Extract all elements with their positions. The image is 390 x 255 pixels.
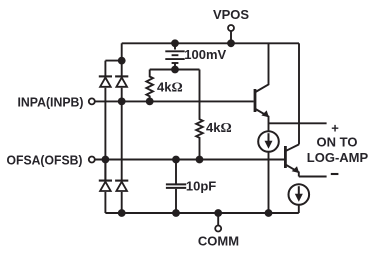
wire: right column bottom segment [121,192,123,213]
wire: right vertical riser (Q2 collector up to rail) [298,43,300,144]
capacitor C1 plates [166,183,186,185]
svg-text:100mV: 100mV [184,47,226,62]
node dot: right column on INPA row [118,98,126,106]
wire: I2 bottom to COMM rail [298,205,300,213]
svg-text:VPOS: VPOS [213,7,249,22]
transistor Q2 base bar [284,146,287,168]
node dot: R1 bottom on INPA row [146,98,154,106]
node dot: right column on bottom rail [118,209,126,217]
svg-text:LOG-AMP: LOG-AMP [307,150,369,165]
node dot: I1 column on bottom rail [265,209,273,217]
node dot: battery top on rail [171,39,179,47]
wire: right column from D2 down across OFSA row to D4 [121,88,123,181]
terminal circle INPA [89,98,95,104]
diode D3 (lower-left, pointing up) [99,160,112,181]
transistor Q2 emitter [286,165,299,177]
node dot: battery bottom junction [171,66,179,74]
wire: - output line [299,176,327,178]
transistor Q1 emitter [256,109,269,131]
current source I2 (circle with down arrow) [289,184,310,205]
wire: top supply rail from left corner to top-right corner [122,42,299,44]
svg-text:INPA(INPB): INPA(INPB) [18,94,84,109]
wire: left diode column upper segment [104,61,106,77]
svg-text:4kΩ: 4kΩ [206,120,232,136]
battery V1 plates (long-short-long-short) [165,50,184,52]
node dot: VPOS on rail [227,39,235,47]
wire: + output line [269,122,327,124]
terminal circle VPOS [228,25,234,31]
wire: diode-top tie wire [105,60,121,62]
svg-text:+: + [331,121,339,136]
node dot: C1 top on OFSA row [172,156,180,164]
transistor Q2 emitter arrowhead [292,166,300,173]
terminal circle OFSA [89,157,95,163]
wire: bottom COMM rail [105,212,298,214]
wire: battery-bottom horizontal wire [150,69,200,71]
diode D2 (upper-right, pointing up) [115,75,128,77]
resistor R2 4k (zigzag) with risers [196,70,203,160]
terminal circle COMM [215,226,221,232]
battery V1 100mV: stub from rail [174,43,176,49]
transistor Q1 emitter arrowhead [261,110,269,117]
node dot: left column on OFSA row [102,156,110,164]
svg-text:10pF: 10pF [186,179,216,194]
diode D1 (upper-left, pointing up) [99,75,112,77]
wire: left column bottom segment to bottom rail corner [104,192,106,213]
node dot: COMM on rail [214,209,222,217]
node dot: tie wire on right column [118,57,126,65]
capacitor C1 10pF: top stub [175,160,177,184]
wire: OFSA row to Q2 base [95,159,284,161]
node dot: C1 bottom on bottom rail [172,209,180,217]
svg-text:ON TO: ON TO [317,135,358,150]
diode D4 (lower-right, pointing up) [115,180,128,182]
wire: left column from D1 down across INPA row to OFSA row [104,88,106,160]
svg-text:COMM: COMM [198,233,239,248]
transistor Q1 collector [256,43,269,92]
resistor R1 4k (zigzag) [146,70,153,102]
wire: I1 bottom to COMM rail (crosses OFSA row) [268,152,270,213]
wire: INPA row to Q1 base [95,100,254,102]
label minus [331,173,339,175]
svg-text:4kΩ: 4kΩ [157,79,183,95]
wire: right diode column upper segment from rail [121,43,123,76]
transistor Q1 base bar [254,89,257,112]
node: VPOS terminal stub [230,32,232,44]
svg-text:OFSA(OFSB): OFSA(OFSB) [7,152,83,167]
current source I1 (circle with down arrow) [258,131,279,152]
node: COMM stub [217,213,219,225]
transistor Q2 collector [286,144,299,150]
battery V1 bottom stub [174,63,176,70]
node dot: R2 bottom on OFSA row [196,156,204,164]
capacitor C1 bottom stub [175,189,177,213]
